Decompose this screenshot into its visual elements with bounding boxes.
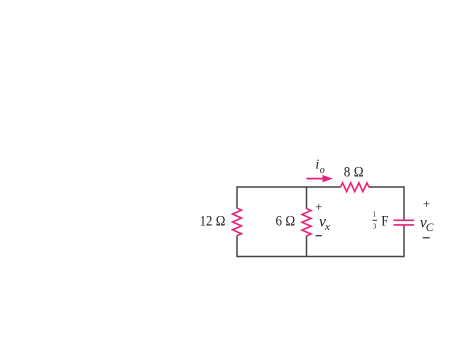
svg-text:6 Ω: 6 Ω (276, 214, 296, 230)
label vC (420, 214, 434, 234)
label 6 ohm (276, 214, 296, 230)
wire top-left segment (237, 186, 341, 188)
svg-text:+: + (423, 196, 430, 211)
svg-text:x: x (324, 221, 330, 233)
wire middle upper (306, 187, 308, 209)
minus sign vx (316, 235, 322, 237)
svg-text:1: 1 (373, 211, 377, 219)
svg-text:i: i (315, 158, 319, 173)
svg-text:8 Ω: 8 Ω (344, 164, 364, 180)
svg-text:C: C (426, 222, 434, 234)
label vx (319, 214, 330, 234)
svg-text:+: + (315, 199, 322, 214)
wire middle lower (306, 236, 308, 257)
resistor 12 ohm zigzag (233, 208, 242, 236)
capacitor plates 1/3 F (394, 220, 415, 225)
wire right lower (403, 226, 405, 258)
wire top-right segment (369, 186, 404, 188)
label 12 ohm (200, 214, 226, 230)
current arrow io (306, 175, 332, 182)
wire right upper (403, 186, 405, 219)
label io (315, 158, 324, 176)
svg-text:12 Ω: 12 Ω (200, 214, 226, 230)
plus sign vx (315, 199, 322, 214)
label 8 ohm (344, 164, 364, 180)
svg-text:o: o (320, 165, 325, 176)
wire bottom (237, 256, 404, 258)
wire left upper (236, 186, 238, 208)
minus sign vC (423, 237, 430, 239)
wire left lower (236, 236, 238, 258)
label 1/3 F fraction (373, 211, 389, 231)
resistor 6 ohm zigzag (302, 209, 311, 236)
svg-text:3: 3 (373, 223, 377, 231)
svg-text:F: F (381, 214, 388, 230)
plus sign vC (423, 196, 430, 211)
resistor 8 ohm zigzag (341, 183, 370, 192)
